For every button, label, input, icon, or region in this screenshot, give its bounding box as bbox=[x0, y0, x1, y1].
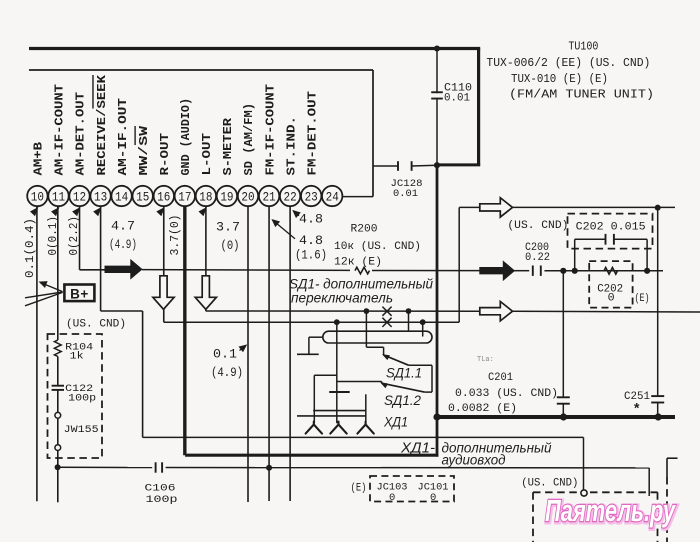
svg-text:SД1.1: SД1.1 bbox=[386, 365, 422, 381]
svg-text:AM+B: AM+B bbox=[32, 141, 46, 175]
svg-text:(E): (E) bbox=[635, 293, 650, 305]
svg-text:ХД1-: ХД1- bbox=[400, 440, 435, 456]
svg-text:13: 13 bbox=[94, 190, 107, 205]
svg-text:21: 21 bbox=[262, 190, 275, 205]
svg-text:C202 0.015: C202 0.015 bbox=[576, 222, 646, 234]
svg-text:L-OUT: L-OUT bbox=[200, 133, 214, 176]
svg-text:0.0082 (E): 0.0082 (E) bbox=[448, 403, 517, 415]
svg-text:0.1(0.4): 0.1(0.4) bbox=[24, 218, 37, 278]
svg-text:12к (E): 12к (E) bbox=[334, 256, 382, 268]
svg-text:C201: C201 bbox=[488, 372, 513, 384]
svg-text:10к (US. CND): 10к (US. CND) bbox=[334, 241, 421, 253]
svg-text:4.7: 4.7 bbox=[111, 219, 135, 234]
svg-text:0(2.2): 0(2.2) bbox=[68, 216, 81, 256]
svg-text:(US. CND): (US. CND) bbox=[521, 477, 578, 489]
svg-text:TLа:: TLа: bbox=[477, 356, 494, 364]
svg-text:0.22: 0.22 bbox=[525, 252, 550, 264]
svg-text:1k: 1k bbox=[70, 350, 84, 362]
svg-text:22: 22 bbox=[284, 190, 297, 205]
svg-text:0.01: 0.01 bbox=[393, 188, 418, 200]
svg-text:4.8: 4.8 bbox=[299, 211, 323, 226]
svg-text:R200: R200 bbox=[351, 223, 378, 235]
svg-text:SD (AM/FM): SD (AM/FM) bbox=[242, 103, 256, 176]
svg-text:15: 15 bbox=[136, 190, 149, 205]
svg-text:аудиовход: аудиовход bbox=[442, 453, 507, 468]
svg-text:MW/SW: MW/SW bbox=[137, 125, 151, 175]
svg-text:0.1: 0.1 bbox=[213, 346, 237, 361]
svg-text:0: 0 bbox=[430, 492, 436, 504]
svg-text:3.7(0): 3.7(0) bbox=[169, 215, 182, 256]
svg-text:TUX-006/2 (EE) (US. CND): TUX-006/2 (EE) (US. CND) bbox=[486, 56, 650, 70]
svg-text:TU100: TU100 bbox=[568, 40, 598, 54]
svg-text:10: 10 bbox=[31, 190, 44, 205]
svg-text:FM-IF-COUNT: FM-IF-COUNT bbox=[263, 84, 277, 176]
svg-text:23: 23 bbox=[305, 190, 318, 205]
svg-text:4.8: 4.8 bbox=[299, 233, 323, 248]
svg-text:AM-IF.OUT: AM-IF.OUT bbox=[116, 98, 130, 176]
svg-text:0.033 (US. CND): 0.033 (US. CND) bbox=[455, 388, 558, 400]
svg-text:GND (AUDIO): GND (AUDIO) bbox=[179, 98, 193, 176]
svg-text:C106: C106 bbox=[145, 482, 176, 494]
svg-text:RECEIVE/SEEK: RECEIVE/SEEK bbox=[95, 74, 109, 175]
svg-text:S-METER: S-METER bbox=[221, 117, 235, 175]
svg-text:100p: 100p bbox=[68, 392, 96, 404]
svg-text:24: 24 bbox=[326, 190, 339, 205]
svg-text:(0): (0) bbox=[221, 238, 240, 253]
svg-text:(FM/AM TUNER UNIT): (FM/AM TUNER UNIT) bbox=[509, 88, 654, 102]
svg-text:(E): (E) bbox=[351, 482, 367, 494]
svg-text:TUX-010 (E) (E): TUX-010 (E) (E) bbox=[511, 72, 608, 86]
svg-text:14: 14 bbox=[115, 190, 128, 205]
svg-text:18: 18 bbox=[199, 190, 212, 205]
svg-text:0.01: 0.01 bbox=[444, 92, 470, 104]
svg-text:(4.9): (4.9) bbox=[109, 237, 137, 252]
svg-text:Паятель.ру: Паятель.ру bbox=[545, 493, 676, 528]
svg-text:0(0.1): 0(0.1) bbox=[47, 216, 60, 256]
svg-text:SД1.2: SД1.2 bbox=[384, 392, 421, 408]
svg-text:FM-DET.OUT: FM-DET.OUT bbox=[305, 91, 319, 176]
svg-text:ХД1: ХД1 bbox=[383, 414, 408, 430]
svg-text:20: 20 bbox=[241, 190, 254, 205]
svg-text:0: 0 bbox=[389, 492, 395, 504]
svg-text:11: 11 bbox=[52, 190, 65, 205]
svg-text:SД1- дополнительный: SД1- дополнительный bbox=[289, 276, 433, 291]
svg-text:JW155: JW155 bbox=[64, 424, 99, 436]
svg-text:ST.IND.: ST.IND. bbox=[284, 116, 298, 176]
svg-text:0: 0 bbox=[608, 293, 615, 305]
svg-text:(US. CND): (US. CND) bbox=[66, 318, 126, 330]
svg-text:переключатель: переключатель bbox=[291, 290, 393, 305]
svg-text:100p: 100p bbox=[146, 494, 178, 506]
svg-text:B+: B+ bbox=[70, 286, 89, 301]
svg-text:AM-DET.OUT: AM-DET.OUT bbox=[74, 92, 88, 176]
svg-text:17: 17 bbox=[178, 190, 191, 205]
svg-text:R-OUT: R-OUT bbox=[158, 133, 172, 176]
svg-text:(US. CND): (US. CND) bbox=[507, 220, 568, 232]
svg-text:(4.9): (4.9) bbox=[211, 365, 243, 380]
svg-text:19: 19 bbox=[220, 190, 233, 205]
svg-text:12: 12 bbox=[73, 190, 86, 205]
svg-text:3.7: 3.7 bbox=[216, 220, 240, 235]
svg-text:16: 16 bbox=[157, 190, 170, 205]
svg-text:(1.6): (1.6) bbox=[295, 247, 327, 262]
svg-text:AM-IF-COUNT: AM-IF-COUNT bbox=[53, 84, 67, 176]
